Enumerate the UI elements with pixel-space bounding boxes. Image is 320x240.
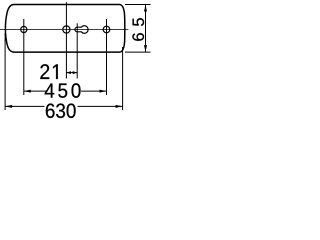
dimension line 21	[66, 72, 77, 74]
label 450	[45, 83, 81, 98]
keyhole slot	[75, 26, 88, 34]
extension line right (450 dim)	[106, 19, 108, 95]
dimension line 450 left segment	[24, 90, 48, 92]
extension line A (middle hole, 21 dim)	[65, 2, 67, 78]
extension line left (450 dim)	[23, 19, 25, 95]
arrowhead 630 right	[116, 105, 123, 108]
extension line far-right (630 dim)	[122, 47, 124, 110]
plate outline	[5, 5, 124, 53]
dimension line 630 left segment	[5, 105, 44, 107]
arrowhead 65 top	[144, 5, 147, 12]
dimension line 630 right segment	[78, 105, 123, 107]
arrowhead 450 right	[100, 90, 107, 93]
dimension line 65	[145, 5, 147, 53]
dimension line 450 right segment	[81, 90, 107, 92]
extension line far-left (630 dim)	[4, 33, 6, 110]
extension line B (keyhole, 21 dim)	[76, 23, 78, 78]
label 21	[40, 64, 57, 79]
arrowhead 21 right	[73, 71, 78, 74]
arrowhead 21 left	[66, 71, 71, 74]
centerline	[0, 29, 128, 31]
extension tick top (65 dim)	[125, 4, 151, 6]
arrowhead 630 left	[5, 105, 12, 108]
arrowhead 450 left	[24, 90, 31, 93]
label 65 (rotated)	[132, 18, 144, 41]
arrowhead 65 bottom	[144, 45, 147, 52]
extension tick bottom (65 dim)	[125, 51, 151, 53]
label 630	[46, 103, 76, 118]
hole circle right	[103, 26, 110, 33]
hole circle left	[21, 26, 27, 32]
hole circle middle	[63, 26, 70, 33]
